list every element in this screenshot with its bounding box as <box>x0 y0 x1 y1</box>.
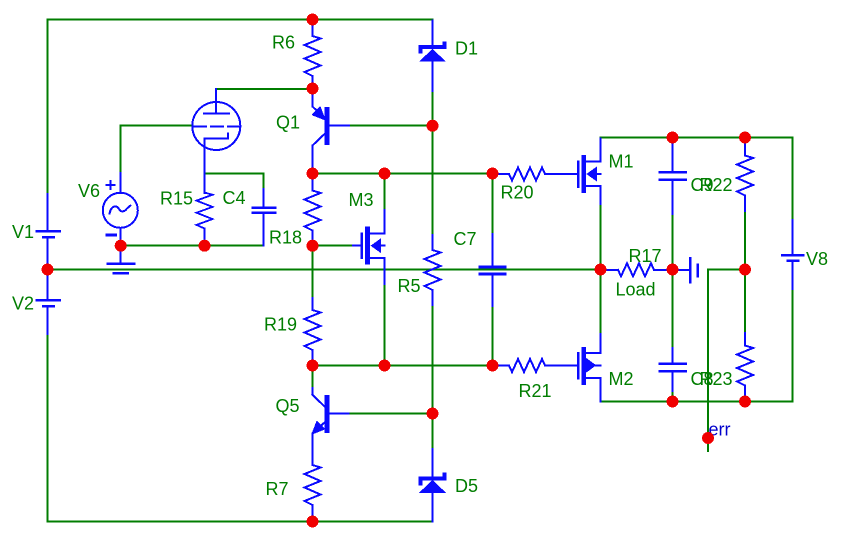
resistor R21 <box>493 359 578 372</box>
wire Q1 base to D1 node <box>349 125 433 127</box>
wire R19 bottom row <box>313 365 493 367</box>
wire Q5 base node to D5 <box>432 414 434 451</box>
resistor R5 <box>425 235 441 305</box>
wire R15 to C4 branch <box>205 172 264 174</box>
node M3 source <box>379 360 391 372</box>
node output top R22 <box>739 132 751 144</box>
svg-text:Q5: Q5 <box>276 396 300 416</box>
wire M3 drain vertical <box>384 174 386 211</box>
wire M1 source down <box>600 203 602 270</box>
node output bottom C8 <box>667 396 679 408</box>
source V6 <box>103 173 138 246</box>
transistor Q5 (NPN) <box>313 388 349 465</box>
resistor R7 <box>305 465 321 522</box>
resistor R17 <box>601 263 673 276</box>
resistor R18 <box>305 174 321 246</box>
wire D1 bottom lead green <box>432 90 434 126</box>
node output top C9 <box>667 132 679 144</box>
diode D1 <box>419 21 446 92</box>
svg-text:C4: C4 <box>223 188 246 208</box>
wire left rail upper <box>47 20 49 196</box>
wire R22 bottom vertical <box>744 210 746 270</box>
MOSFET M3 (NMOS) <box>353 210 385 284</box>
node bottom rail <box>307 516 319 528</box>
svg-text:V8: V8 <box>806 249 828 269</box>
wire main mid rail <box>48 269 601 271</box>
svg-text:R15: R15 <box>160 189 193 209</box>
wire C7 top vertical <box>492 174 494 236</box>
node output bottom R23 <box>739 396 751 408</box>
capacitor C9 <box>660 138 686 215</box>
svg-text:M3: M3 <box>349 190 374 210</box>
svg-text:V2: V2 <box>12 294 34 314</box>
wire V6 R15 C4 bottom <box>121 245 264 247</box>
wire V6 to tube grid <box>121 125 193 127</box>
wire C8 column upper <box>672 270 674 350</box>
resistor R6 <box>305 20 321 89</box>
svg-text:Load: Load <box>616 280 656 300</box>
capacitor C7 <box>480 234 505 306</box>
node R18 bottom <box>307 240 319 252</box>
wire bottom rail <box>48 521 433 523</box>
svg-text:R20: R20 <box>501 183 534 203</box>
wire R18 column upper <box>312 178 314 191</box>
node R17 left <box>595 264 607 276</box>
wire right rail lower <box>792 288 794 402</box>
ground <box>108 246 135 273</box>
capacitor C4 <box>253 189 276 246</box>
wire err node corner <box>708 270 745 452</box>
wire output bottom rail <box>601 401 793 403</box>
svg-text:D5: D5 <box>455 476 478 496</box>
wire output top rail <box>601 137 793 139</box>
node R6 / Q1 emitter <box>307 83 319 95</box>
wire R18 bottom to M3 gate <box>313 245 354 247</box>
wire Q5 base <box>349 413 433 415</box>
wire top rail <box>48 19 433 21</box>
svg-text:M2: M2 <box>609 369 634 389</box>
svg-text:R19: R19 <box>264 315 297 335</box>
resistor R20 <box>493 168 578 181</box>
svg-text:R22: R22 <box>700 175 733 195</box>
node R15 bottom <box>199 240 211 252</box>
svg-text:R7: R7 <box>266 479 289 499</box>
node M3 drain <box>379 168 391 180</box>
capacitor C8 <box>660 348 686 391</box>
battery V2 <box>37 270 60 335</box>
node left rail mid <box>42 264 54 276</box>
node top rail / R6 <box>307 14 319 26</box>
wire M3 source vertical <box>384 283 386 366</box>
MOSFET M2 (PMOS) <box>578 334 600 402</box>
wire R23 column upper <box>744 270 746 335</box>
svg-text:M1: M1 <box>609 152 634 172</box>
wire left rail lower <box>47 333 49 522</box>
battery V1 <box>37 194 60 270</box>
node R20 left <box>487 168 499 180</box>
wire R5 to Q5 base node <box>432 304 434 414</box>
capacitor Cerr (open) <box>673 258 698 282</box>
svg-text:C7: C7 <box>454 229 477 249</box>
svg-text:R23: R23 <box>700 369 733 389</box>
node Q5 base / D5 <box>427 408 439 420</box>
wire R18 bottom to R19 <box>312 246 314 299</box>
node V6 minus <box>115 240 127 252</box>
wire R19 bottom to Q5 collector <box>312 358 314 389</box>
node R17 right <box>667 264 679 276</box>
resistor R22 <box>737 138 753 212</box>
wire M2 drain up <box>600 270 602 336</box>
wire tube plate to R6 bottom <box>216 88 313 90</box>
wire D1 node down to R5 <box>432 126 434 236</box>
resistor R23 <box>737 333 753 402</box>
svg-text:R21: R21 <box>519 381 552 401</box>
wire V6 top vertical <box>120 126 122 174</box>
node R22 bottom <box>739 264 751 276</box>
MOSFET M1 (NMOS) <box>578 139 600 205</box>
svg-text:V1: V1 <box>12 222 34 242</box>
wire C8 bottom vertical <box>672 390 674 402</box>
resistor R19 <box>305 298 321 359</box>
svg-text:R18: R18 <box>269 228 302 248</box>
svg-text:R6: R6 <box>272 33 295 53</box>
svg-text:R5: R5 <box>398 276 421 296</box>
wire C9 bottom vertical <box>672 213 674 270</box>
node Q1 collector <box>307 168 319 180</box>
svg-text:D1: D1 <box>455 39 478 59</box>
svg-text:V6: V6 <box>78 181 100 201</box>
node err <box>702 432 714 444</box>
svg-text:Q1: Q1 <box>276 113 300 133</box>
svg-text:R17: R17 <box>629 246 662 266</box>
node R21 left <box>487 360 499 372</box>
battery V8 <box>782 220 803 289</box>
diode D5 <box>419 449 446 522</box>
triode tube U1 <box>192 89 240 173</box>
wire C4 top lead upper <box>263 173 265 190</box>
transistor Q1 (PNP) <box>313 89 350 171</box>
wire right rail upper <box>792 138 794 222</box>
wire C7 bottom vertical <box>492 305 494 366</box>
resistor R15 <box>197 173 213 245</box>
node D1 bottom <box>427 120 439 132</box>
node R19 bottom <box>307 360 319 372</box>
wire Q1 collector row <box>313 173 493 175</box>
